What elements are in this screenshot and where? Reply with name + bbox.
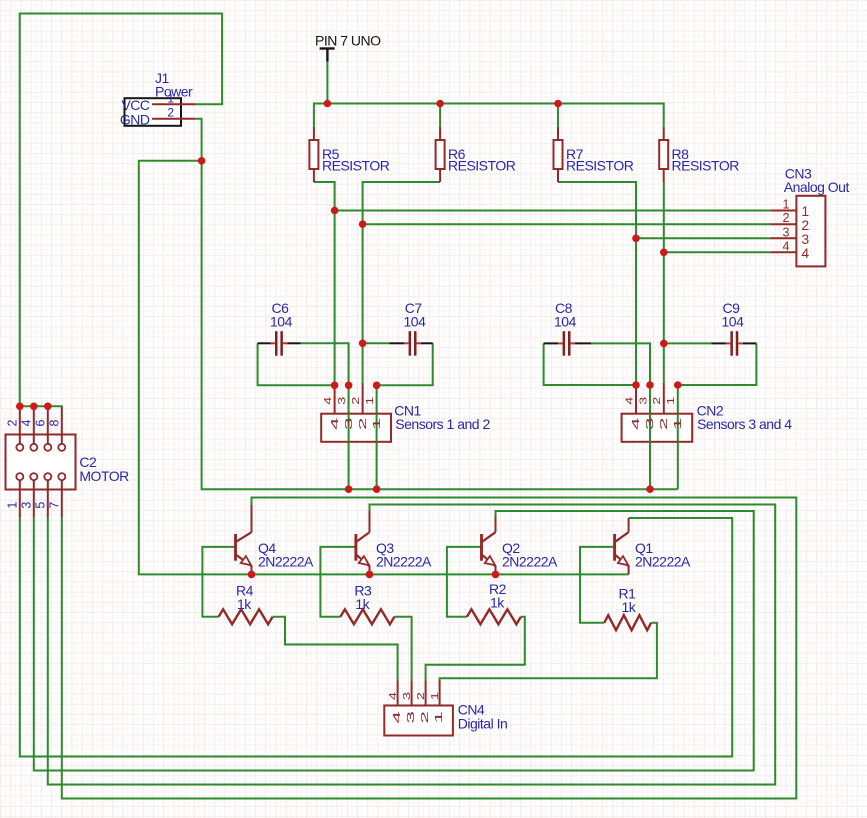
junction GND rail at CN1 pin1 [373,485,381,493]
svg-text:1: 1 [167,91,174,105]
svg-text:3: 3 [405,712,417,724]
wire net to CN3 pin 2 [363,223,771,225]
wire C9 right plate loop to CN2 pin1 and GND rail [678,343,757,489]
wire R5 bottom to CN1 pin4 vertical [314,182,335,385]
svg-text:Power: Power [155,84,193,100]
transistor Q2 (2N2222A) [482,517,559,575]
svg-text:4: 4 [20,420,34,427]
svg-text:1k: 1k [355,596,370,612]
wire net to CN3 pin 3 [636,237,770,239]
capacitor C9 [712,300,757,356]
wire C7 right plate loop to CN1 pin1 and GND rail [377,343,433,489]
svg-text:4: 4 [328,417,340,430]
svg-text:1k: 1k [490,595,505,611]
wire R7 bottom to CN2 pin4 vertical [558,182,636,385]
svg-text:2: 2 [419,712,431,724]
resistor R6 [436,127,516,182]
junction PIN7 bus at R7 [554,100,562,108]
resistor R3 (1k) [340,583,394,625]
wire net to CN3 pin 1 [335,210,771,212]
junction CN3 line1 tap [331,207,339,215]
svg-text:RESISTOR: RESISTOR [566,157,634,173]
svg-text:3: 3 [336,397,348,405]
wire C6 right plate to CN1 pin3 and GND rail [301,343,349,489]
junction CN3 line4 tap [660,249,668,257]
svg-text:104: 104 [270,314,293,330]
svg-text:1k: 1k [622,599,637,615]
wire R6 top stub [439,104,441,127]
wire R4 to CN4 pin 4 [273,617,398,680]
junction Q4 emitter [248,571,256,579]
svg-text:1: 1 [364,397,376,405]
svg-text:1: 1 [370,418,382,430]
connector CN4 (Digital In) [384,680,507,735]
svg-text:2: 2 [167,106,174,120]
junction PIN7 bus at R6 [436,100,444,108]
connector CN3 (Analog Out) [770,166,849,267]
svg-text:2N2222A: 2N2222A [376,554,432,570]
svg-text:2N2222A: 2N2222A [502,554,558,570]
wire Q3 base to R3 [320,547,355,617]
svg-text:1: 1 [671,418,683,430]
svg-text:6: 6 [34,420,48,427]
wire PIN7 bus across resistor tops [314,104,664,127]
wire GND branch to transistor emitter rail [139,161,629,575]
svg-text:1: 1 [783,198,790,212]
svg-text:104: 104 [404,314,427,330]
svg-text:7: 7 [48,502,62,509]
svg-text:3: 3 [783,225,790,239]
resistor R2 (1k) [467,581,521,624]
wire Q4 collector loop to C2 pin 7 [62,498,797,799]
wire C8 left plate loop to CN2 pin4 [544,343,636,385]
junction C2 pin6 [44,403,52,411]
transistor Q3 (2N2222A) [356,511,432,574]
svg-text:8: 8 [48,420,62,427]
junction CN2 pin1 [674,381,682,389]
resistor R1 (1k) [604,586,651,631]
svg-text:2: 2 [356,418,368,430]
svg-text:3: 3 [342,418,354,430]
svg-text:1k: 1k [237,596,252,612]
svg-text:2: 2 [350,397,362,405]
svg-text:4: 4 [783,239,790,253]
svg-text:RESISTOR: RESISTOR [322,157,390,173]
svg-text:4: 4 [391,711,403,724]
junction C7 left tap [359,340,367,348]
wire R8 bottom to CN2 pin2 vertical [663,182,665,383]
junction C2 pin4 [30,403,38,411]
svg-text:3: 3 [637,397,649,405]
svg-text:1: 1 [433,712,445,724]
junction CN2 pin4 [632,381,640,389]
junction CN3 line2 tap [359,220,367,228]
svg-text:2N2222A: 2N2222A [258,554,314,570]
wire Q3 collector loop to C2 pin 5 [48,505,775,785]
junction C2 pin2 [16,403,24,411]
wire C7 left plate to CN1 pin2 junction [363,342,390,344]
wire net to CN3 pin 4 [664,251,771,253]
svg-text:5: 5 [34,502,48,509]
svg-text:2: 2 [651,397,663,405]
junction GND rail at CN2 pin3 [646,485,654,493]
svg-text:2: 2 [657,418,669,430]
svg-text:1: 1 [429,692,441,700]
transistor Q1 (2N2222A) [615,518,691,574]
junction CN2 pin3 [646,381,654,389]
svg-text:Digital In: Digital In [458,716,507,732]
resistor R7 [554,127,634,182]
wire R3 to CN4 pin 3 [394,617,411,680]
svg-text:MOTOR: MOTOR [79,468,129,484]
junction CN1 pin3 [345,382,353,390]
wire Q1 collector loop to C2 pin 1 [20,518,732,757]
resistor R4 (1k) [219,583,273,625]
wire VCC net: top-left loop from J1 pin1 to C2 top pins [20,14,222,407]
svg-text:4: 4 [630,417,642,430]
capacitor C6 [258,300,301,356]
svg-text:4: 4 [801,245,809,261]
svg-text:1: 1 [665,397,677,405]
pin symbol PIN 7 UNO [315,33,381,62]
svg-text:4: 4 [322,397,334,405]
wire R7 top stub [557,104,559,127]
svg-text:Analog Out: Analog Out [784,179,850,195]
resistor R5 [309,127,389,182]
junction C9 left tap [660,340,668,348]
junction PIN7 bus at stub [324,100,332,108]
svg-text:2: 2 [415,692,427,700]
resistor R8 [659,127,739,182]
wire GND net: J1 pin2 down to bottom rail under CN1/CN2 [195,119,678,490]
wire C6 left plate loop to CN1 pin4 [258,343,335,385]
wire Q4 base to R4 [202,547,234,617]
svg-text:GND: GND [120,111,150,127]
svg-text:2N2222A: 2N2222A [635,554,691,570]
svg-text:2: 2 [6,420,20,427]
junction GND rail at CN1 pin3 [345,485,353,493]
svg-text:3: 3 [20,502,34,509]
transistor Q4 (2N2222A) [236,505,315,574]
capacitor C7 [390,300,433,356]
junction Q3 emitter [366,571,374,579]
svg-text:1: 1 [6,502,20,509]
svg-text:3: 3 [401,692,413,700]
junction J1 GND split [198,157,206,165]
svg-text:RESISTOR: RESISTOR [448,157,516,173]
svg-text:104: 104 [722,314,745,330]
svg-text:PIN 7 UNO: PIN 7 UNO [315,33,381,49]
connector CN2 (Sensors 3 and 4) [622,383,793,442]
junction CN3 line3 tap [632,235,640,243]
capacitor C8 [544,300,592,356]
svg-text:3: 3 [644,418,656,430]
svg-text:4: 4 [623,397,635,405]
wire R1 to CN4 pin 1 [440,623,657,681]
wire Q2 base to R2 [447,547,481,617]
wire PIN 7 UNO stub [326,62,328,104]
svg-text:2: 2 [783,211,790,225]
connector C2 (MOTOR) [6,406,130,517]
wire C8 right plate to CN2 pin3 and GND rail [591,343,650,489]
svg-text:Sensors 3 and 4: Sensors 3 and 4 [697,416,792,432]
svg-text:104: 104 [554,314,577,330]
wire Q2 collector loop to C2 pin 3 [34,511,754,771]
svg-text:Sensors 1 and 2: Sensors 1 and 2 [395,416,490,432]
svg-text:4: 4 [387,692,399,700]
svg-text:RESISTOR: RESISTOR [672,157,740,173]
connector J1 (Power) [120,70,195,127]
wire Q1 base to R1 [580,547,614,623]
junction CN1 pin4 [331,382,339,390]
junction Q2 emitter [492,571,500,579]
connector CN1 (Sensors 1 and 2) [321,383,490,442]
wire C9 left plate to CN2 pin2 junction [664,342,712,344]
wire R6 bottom to CN1 pin2 vertical [363,182,441,383]
junction CN1 pin1 [373,382,381,390]
wire R2 to CN4 pin 2 [426,617,525,680]
